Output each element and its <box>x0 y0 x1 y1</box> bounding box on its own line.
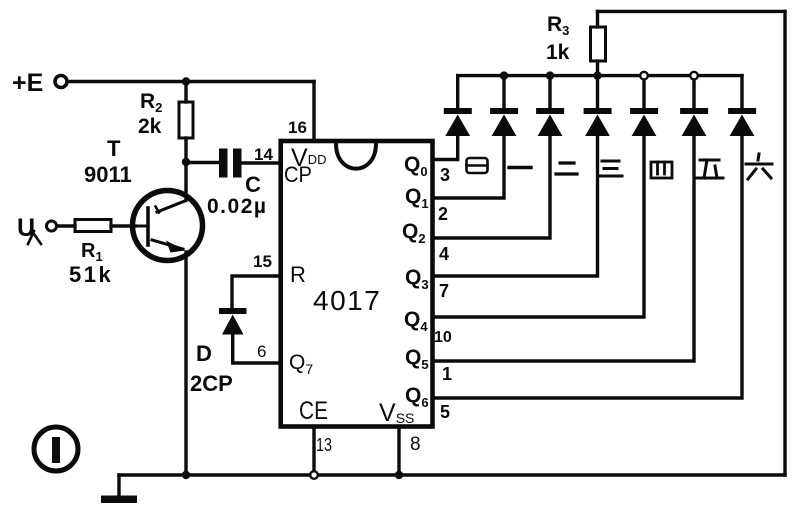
svg-text:7: 7 <box>439 281 449 301</box>
wire pin 15 to diode D <box>232 276 280 308</box>
transistor T 9011 <box>133 191 203 261</box>
svg-text:4: 4 <box>439 244 449 264</box>
svg-text:13: 13 <box>316 435 332 455</box>
svg-text:1k: 1k <box>546 41 570 64</box>
svg-text:Q4: Q4 <box>404 308 428 334</box>
svg-text:Q1: Q1 <box>405 185 429 211</box>
LED VD1 <box>444 76 472 136</box>
capacitor C <box>219 149 242 178</box>
junction at +E/R2 <box>182 77 190 85</box>
resistor R3 <box>591 11 606 75</box>
junction bus/LED2 <box>500 71 508 79</box>
wire U terminal to R1 <box>57 224 75 227</box>
wire Q5 to LED6 <box>433 136 695 361</box>
svg-text:14: 14 <box>254 145 273 164</box>
wire Q6 to LED7 <box>433 136 743 398</box>
svg-text:16: 16 <box>288 118 307 137</box>
svg-text:6: 6 <box>257 342 266 361</box>
wire junction to capacitor <box>186 161 219 164</box>
figure number 1 <box>34 427 78 471</box>
svg-text:Q5: Q5 <box>405 346 429 372</box>
wire R2 junction to pin16 corner <box>186 80 314 83</box>
junction bus/R3 <box>593 71 601 79</box>
LED VD7 <box>728 76 756 136</box>
svg-text:4017: 4017 <box>313 285 381 316</box>
svg-text:8: 8 <box>410 434 421 455</box>
LED VD6 <box>680 76 708 136</box>
junction VSS/ground <box>395 471 403 479</box>
svg-text:U: U <box>17 214 35 242</box>
svg-text:T: T <box>107 136 121 161</box>
svg-text:9011: 9011 <box>84 162 132 187</box>
label day three <box>599 161 622 176</box>
LED VD4 <box>584 76 612 136</box>
resistor R2 <box>179 82 193 163</box>
wire VSS to ground rail <box>397 427 400 476</box>
svg-text:5: 5 <box>440 402 450 422</box>
label day one <box>509 166 531 169</box>
svg-text:1: 1 <box>442 364 452 384</box>
wire ground rail <box>119 473 785 476</box>
junction CE/ground <box>310 471 318 479</box>
junction R2/C/collector <box>182 158 190 166</box>
node +E terminal <box>55 76 67 88</box>
svg-text:R2: R2 <box>140 90 162 115</box>
LED VD3 <box>536 76 564 136</box>
wire LED cathode bus <box>458 74 742 77</box>
IC U1 4017 outline <box>281 141 433 427</box>
svg-text:10: 10 <box>434 329 452 346</box>
svg-text:Q7: Q7 <box>289 351 313 377</box>
svg-text:3: 3 <box>440 165 450 185</box>
resistor R1 <box>75 220 135 232</box>
svg-text:R3: R3 <box>547 13 569 38</box>
wire Q2 to LED3 <box>433 136 551 238</box>
wire right edge down to ground rail <box>783 11 786 475</box>
wire Q4 to LED5 <box>433 136 645 317</box>
svg-text:C: C <box>245 172 261 197</box>
wire pin16 vertical <box>312 82 315 142</box>
junction bus/LED6 <box>690 72 698 80</box>
label day five <box>696 160 723 178</box>
wire Q0 to LED1 <box>433 136 458 160</box>
svg-text:D: D <box>196 341 212 366</box>
svg-text:Q2: Q2 <box>402 220 426 246</box>
svg-text:2CP: 2CP <box>190 371 233 396</box>
node U input terminal <box>47 221 57 231</box>
svg-text:R1: R1 <box>81 240 103 264</box>
wire collector <box>184 162 187 200</box>
svg-text:CP: CP <box>284 162 312 187</box>
svg-text:2: 2 <box>438 204 448 224</box>
wire Q3 to LED4 <box>433 136 598 276</box>
LED VD5 <box>630 76 658 136</box>
svg-text:R: R <box>290 262 306 287</box>
wire diode D to pin 6 Q7 <box>233 335 280 364</box>
ground <box>101 475 137 503</box>
svg-text:2k: 2k <box>138 115 162 138</box>
svg-text:51k: 51k <box>69 262 113 287</box>
label U input <box>17 214 41 244</box>
wire CE to ground rail <box>312 427 315 476</box>
svg-text:Q3: Q3 <box>405 266 429 292</box>
svg-text:Q0: Q0 <box>404 153 428 179</box>
svg-text:+E: +E <box>12 69 43 97</box>
label day six <box>746 154 772 179</box>
svg-text:15: 15 <box>253 252 272 271</box>
label day two <box>556 163 577 174</box>
junction emitter/ground <box>182 471 190 479</box>
wire R3 top to right edge <box>598 10 786 13</box>
junction bus/LED3 <box>546 71 554 79</box>
svg-text:CE: CE <box>299 397 328 425</box>
wire +E to R2 top junction <box>68 80 186 83</box>
junction bus/LED5 <box>640 72 648 80</box>
wire emitter down to ground rail <box>184 252 187 475</box>
wire capacitor to pin 14 <box>242 161 281 164</box>
diode D <box>219 308 247 335</box>
LED VD2 <box>490 76 518 136</box>
svg-text:0.02µ: 0.02µ <box>207 195 267 218</box>
svg-text:Q6: Q6 <box>405 384 429 410</box>
label day RI (box) <box>467 158 488 173</box>
wire Q1 to LED2 <box>433 136 505 198</box>
label day four <box>651 162 672 178</box>
